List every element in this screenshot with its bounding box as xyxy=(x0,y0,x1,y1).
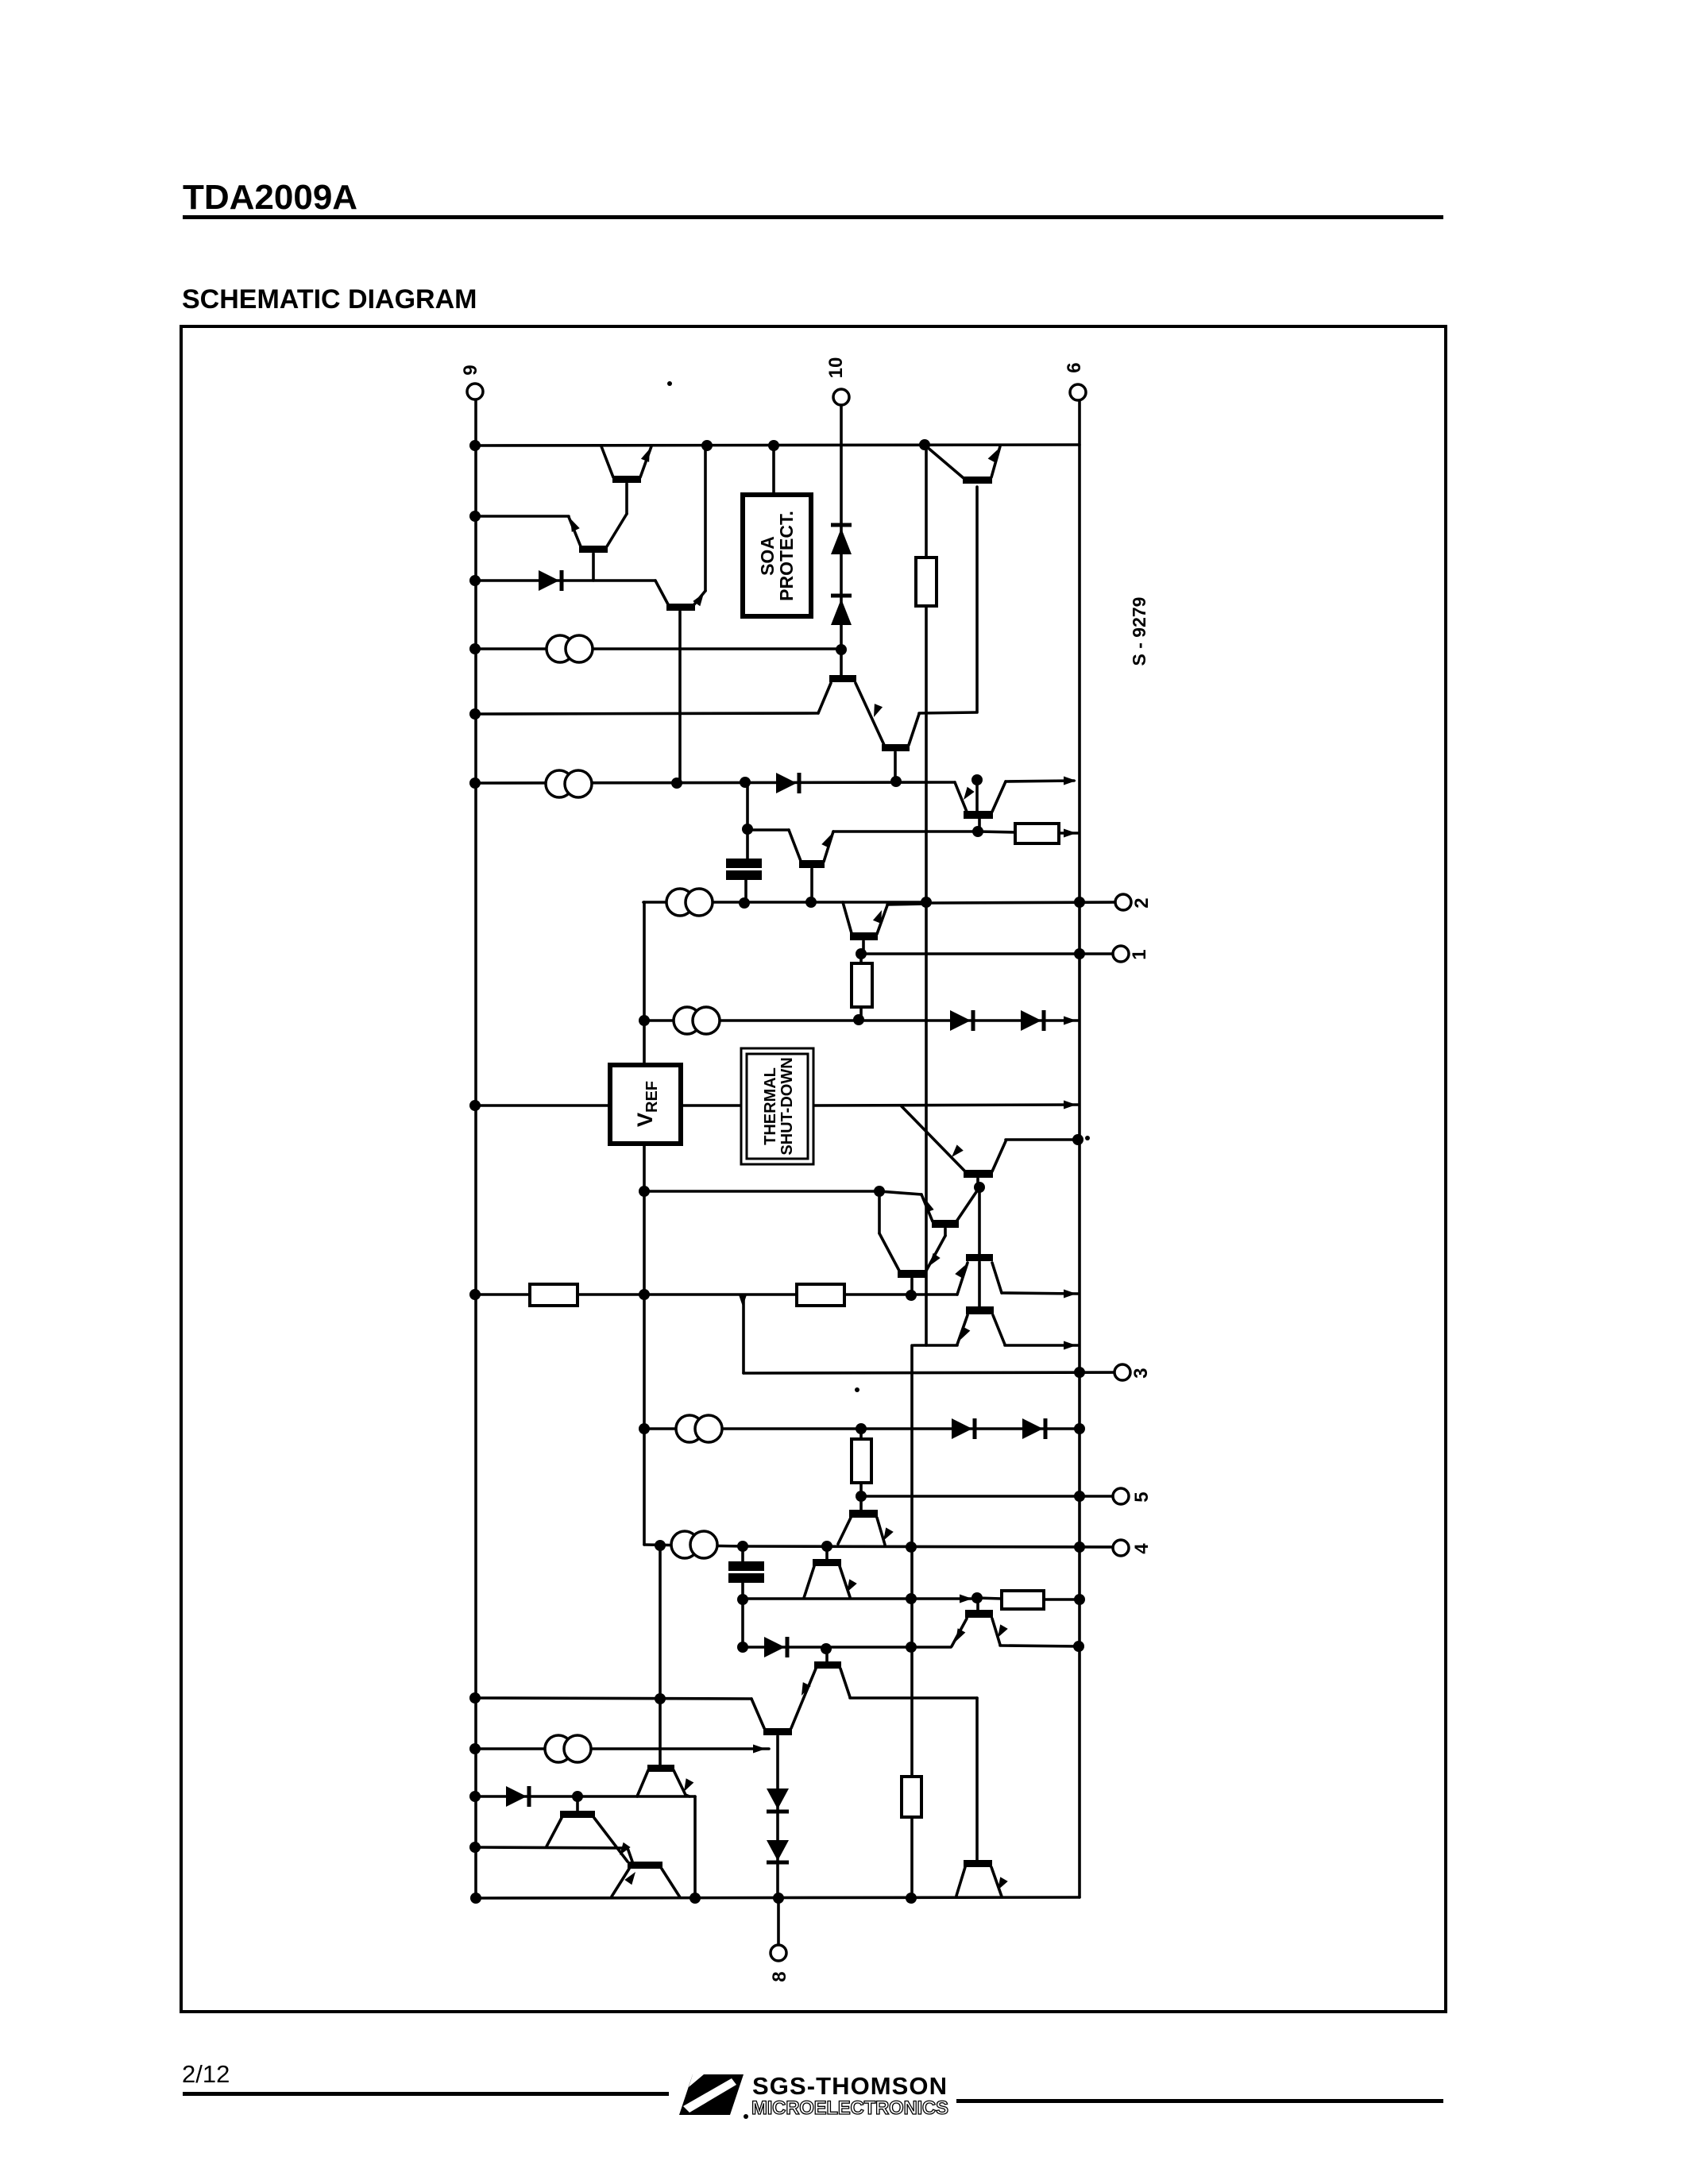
svg-text:2/12: 2/12 xyxy=(182,2060,230,2088)
svg-text:THERMALSHUT-DOWN: THERMALSHUT-DOWN xyxy=(762,1057,796,1155)
svg-text:TDA2009A: TDA2009A xyxy=(183,178,357,217)
svg-text:3: 3 xyxy=(1130,1368,1152,1378)
svg-text:SCHEMATIC DIAGRAM: SCHEMATIC DIAGRAM xyxy=(182,284,477,314)
svg-text:S - 9279: S - 9279 xyxy=(1129,597,1149,666)
svg-text:10: 10 xyxy=(825,357,847,379)
svg-text:MICROELECTRONICS: MICROELECTRONICS xyxy=(751,2097,948,2119)
svg-text:2: 2 xyxy=(1131,897,1153,908)
svg-text:4: 4 xyxy=(1131,1543,1153,1554)
svg-text:1: 1 xyxy=(1129,949,1150,959)
svg-text:9: 9 xyxy=(460,365,481,375)
svg-text:5: 5 xyxy=(1131,1491,1153,1502)
svg-text:6: 6 xyxy=(1064,362,1085,372)
svg-text:8: 8 xyxy=(769,1971,790,1981)
